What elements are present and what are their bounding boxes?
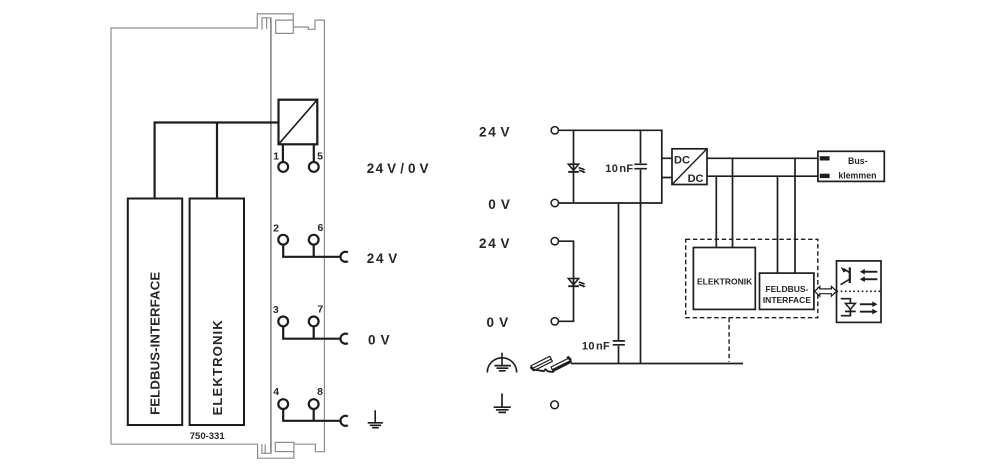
busklemmen pad bottom — [820, 174, 830, 178]
wire 0V rail — [559, 202, 662, 204]
wire from 0V down to ground bus — [640, 203, 642, 364]
row 4 wire to clamp — [282, 409, 341, 421]
contact 2 — [278, 235, 288, 245]
wire DC/DC plus to Busklemmen — [707, 157, 818, 159]
functional earth symbol — [487, 353, 516, 373]
wire drop to elektronik right — [732, 158, 734, 247]
terminal 0V upper — [551, 199, 558, 206]
contact 4 — [278, 399, 288, 409]
svg-text:0 V: 0 V — [368, 333, 392, 348]
wire DC/DC minus to Busklemmen — [707, 175, 818, 177]
contact 6 — [309, 235, 319, 245]
svg-text:5: 5 — [317, 151, 323, 163]
wire drop to feldbus left — [777, 176, 779, 273]
svg-text:10 nF: 10 nF — [605, 163, 633, 175]
housing inner rail line — [270, 18, 272, 454]
din rail shield clamp — [530, 356, 571, 372]
LED indicator upper — [568, 164, 586, 173]
optocoupler box — [837, 261, 882, 323]
phototransistor symbol — [841, 267, 850, 285]
row 2 clamp arc — [340, 252, 347, 262]
terminal shield — [551, 401, 559, 409]
svg-text:24 V: 24 V — [479, 236, 511, 251]
module housing outline right/bottom — [111, 20, 324, 458]
svg-text:FELDBUS-: FELDBUS- — [765, 284, 808, 294]
svg-text:2: 2 — [273, 223, 279, 235]
contact 3 — [278, 317, 288, 327]
svg-text:0 V: 0 V — [488, 197, 512, 212]
pin 5 stub — [313, 144, 315, 162]
svg-text:FELDBUS-INTERFACE: FELDBUS-INTERFACE — [147, 272, 162, 415]
row 3 clamp arc — [340, 334, 347, 344]
module housing outline top/left — [111, 14, 293, 444]
optocoupler dotted divider — [837, 290, 882, 292]
row 4 earth symbol — [368, 410, 383, 427]
earth ground symbol lower — [494, 393, 511, 412]
wire from 0V down (cap branch) — [618, 203, 620, 364]
terminal 24V lower — [551, 238, 558, 245]
dc/dc diagonal — [279, 100, 318, 145]
svg-text:24 V: 24 V — [367, 251, 399, 266]
svg-text:Bus-: Bus- — [848, 156, 868, 166]
capacitor 10nF lower — [613, 341, 625, 345]
dc/dc converter box — [279, 100, 318, 145]
bidirectional bus arrow — [815, 286, 837, 296]
svg-text:0 V: 0 V — [487, 315, 511, 330]
svg-text:4: 4 — [273, 386, 279, 398]
ground bus wire — [571, 363, 743, 365]
svg-text:ELEKTRONIK: ELEKTRONIK — [210, 319, 225, 415]
dashed electronics enclosure — [686, 239, 818, 317]
svg-text:10 nF: 10 nF — [582, 340, 610, 352]
wire feldbus/elektronik to DC/DC — [155, 123, 279, 199]
feldbus-interface box right — [760, 273, 814, 309]
capacitor 10nF upper — [634, 130, 647, 203]
row 2 wire to clamp — [282, 244, 341, 256]
housing bottom notch — [275, 442, 294, 451]
svg-text:ELEKTRONIK: ELEKTRONIK — [697, 276, 753, 286]
pin 1 stub — [282, 144, 284, 162]
svg-text:7: 7 — [317, 304, 323, 316]
dashed wire to ground bus — [728, 318, 730, 362]
svg-text:DC: DC — [674, 155, 690, 167]
terminal 24V upper — [551, 127, 558, 134]
contact 7 — [309, 317, 319, 327]
svg-text:klemmen: klemmen — [838, 170, 876, 180]
svg-text:750-331: 750-331 — [190, 431, 226, 442]
elektronik box U2 — [190, 199, 244, 426]
wire 24V top rail — [559, 129, 662, 131]
svg-text:8: 8 — [317, 386, 323, 398]
wire lower branch — [559, 241, 574, 321]
row 4 clamp arc — [340, 416, 347, 426]
optocoupler LED symbol — [841, 299, 856, 316]
feldbus-interface box U1 — [128, 199, 182, 426]
wire right vertical to DC/DC — [661, 130, 663, 204]
svg-text:6: 6 — [317, 222, 323, 234]
contact 5 — [309, 162, 319, 172]
elektronik box right — [693, 248, 755, 310]
dc/dc converter U3 — [661, 149, 707, 185]
svg-text:1: 1 — [273, 151, 279, 163]
contact 1 — [278, 162, 288, 172]
housing bottom hook — [262, 444, 271, 453]
contact 8 — [309, 399, 319, 409]
LED indicator lower — [568, 279, 586, 288]
wire drop to elektronik left — [715, 176, 717, 247]
busklemmen box — [818, 151, 884, 181]
busklemmen pad top — [820, 156, 830, 160]
svg-text:INTERFACE: INTERFACE — [763, 295, 812, 305]
svg-text:24 V / 0 V: 24 V / 0 V — [367, 161, 430, 176]
housing top hook — [262, 18, 271, 30]
arrows transmit (bottom pair) — [860, 301, 878, 314]
arrows receive (top pair) — [860, 269, 878, 282]
svg-text:DC: DC — [688, 173, 704, 185]
row 3 wire to clamp — [282, 326, 341, 339]
wire drop to feldbus right — [794, 158, 796, 273]
terminal 0V lower — [551, 318, 558, 325]
svg-text:3: 3 — [273, 304, 279, 316]
wire LED branch vertical — [573, 130, 575, 203]
svg-text:24 V: 24 V — [479, 124, 511, 139]
